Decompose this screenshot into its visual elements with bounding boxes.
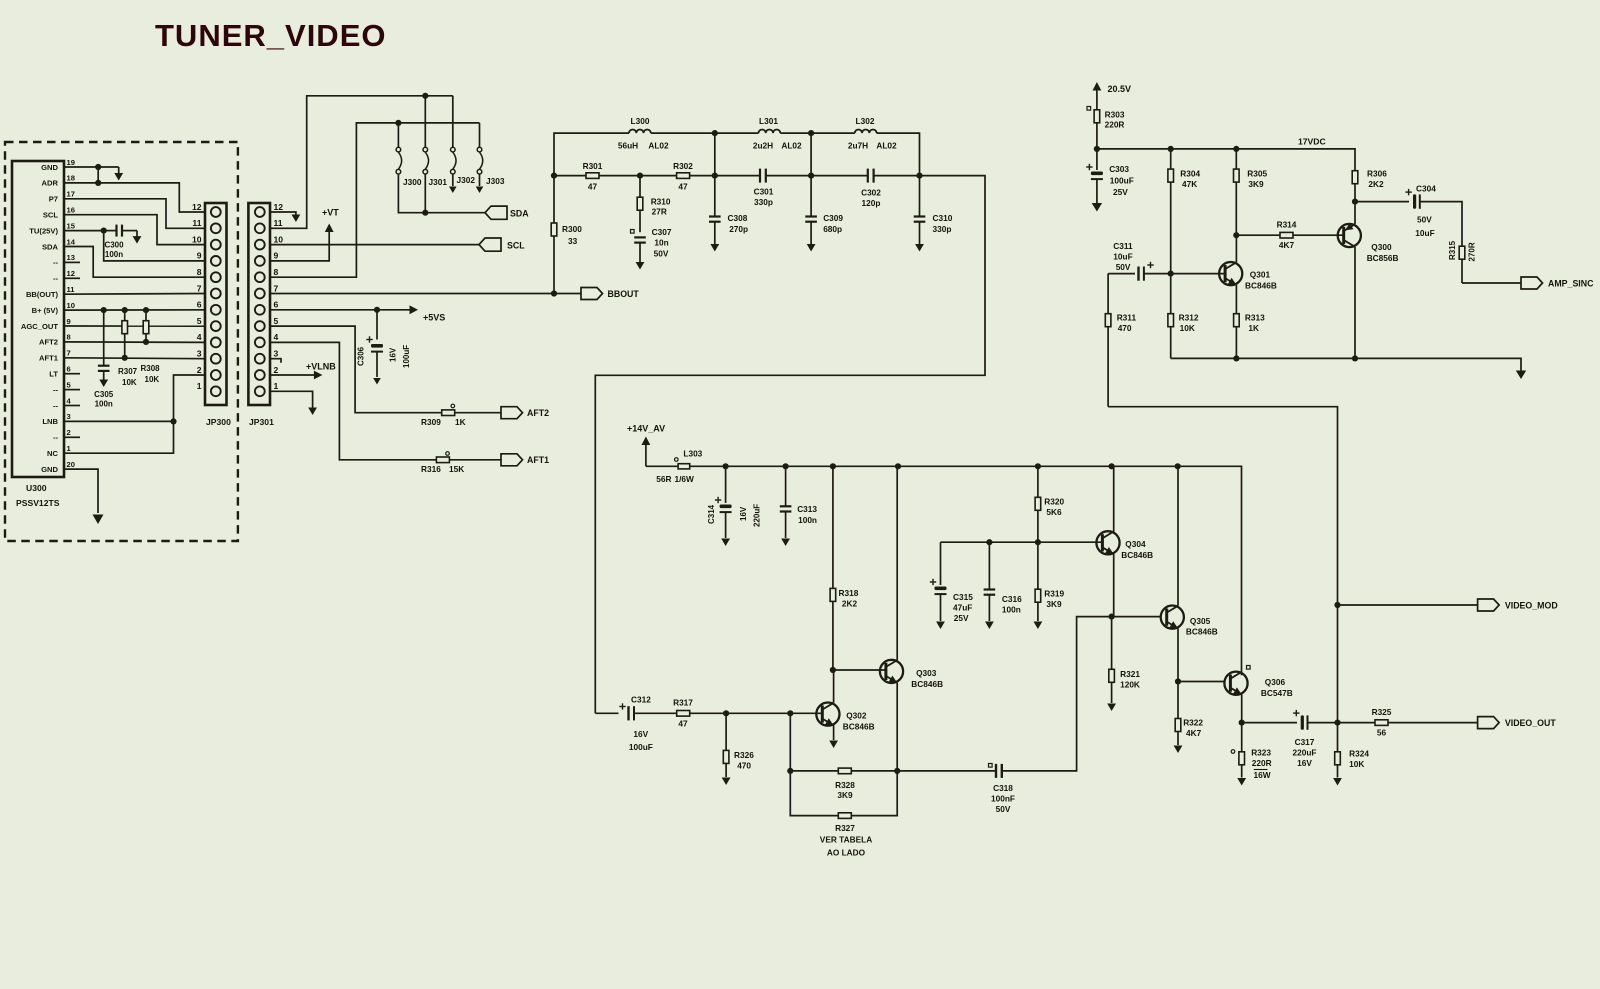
svg-text:270p: 270p xyxy=(729,224,748,234)
wire R317 to R326 node xyxy=(690,712,726,714)
wire R315 to AMP_SINC xyxy=(1462,282,1521,284)
wire emitter node to Q305 base xyxy=(1112,616,1161,618)
svg-text:15K: 15K xyxy=(449,464,464,474)
wire node to C304 xyxy=(1355,201,1409,203)
C301 label xyxy=(754,187,774,197)
wire JP301 pin6 +5VS xyxy=(270,309,410,311)
svg-text:ADR: ADR xyxy=(42,179,59,188)
svg-text:4K7: 4K7 xyxy=(1279,240,1295,250)
node rail C313 xyxy=(783,463,789,469)
C318 label xyxy=(993,783,1013,793)
wire R316 to AFT1 tag xyxy=(449,459,501,461)
svg-text:2: 2 xyxy=(67,428,71,437)
svg-text:10: 10 xyxy=(274,234,284,244)
svg-text:BC846B: BC846B xyxy=(1121,550,1153,560)
svg-text:10K: 10K xyxy=(1180,323,1195,333)
inductor L303 (choke) xyxy=(678,464,690,469)
capacitor C312 xyxy=(595,703,676,720)
svg-text:680p: 680p xyxy=(823,224,842,234)
svg-text:R323: R323 xyxy=(1251,748,1271,758)
R325 value xyxy=(1377,728,1387,738)
svg-text:5: 5 xyxy=(274,316,279,326)
svg-text:2K2: 2K2 xyxy=(842,599,858,609)
resistor R300 xyxy=(551,176,557,294)
capacitor C314 xyxy=(715,466,732,538)
resistor R328 xyxy=(838,768,851,774)
svg-text:17: 17 xyxy=(67,190,75,199)
ground at R323 xyxy=(1237,778,1246,786)
wire Q303 collector xyxy=(896,466,898,660)
svg-text:R303: R303 xyxy=(1105,110,1125,120)
svg-text:R302: R302 xyxy=(673,161,693,171)
svg-text:BC846B: BC846B xyxy=(1186,627,1218,637)
svg-text:VIDEO_OUT: VIDEO_OUT xyxy=(1505,718,1556,728)
wire JP301 pin4 to AFT1 xyxy=(270,342,436,459)
svg-text:R312: R312 xyxy=(1179,313,1199,323)
connector JP300 xyxy=(205,203,227,405)
svg-text:Q300: Q300 xyxy=(1371,242,1392,252)
R319 value xyxy=(1046,599,1062,609)
C306 value xyxy=(402,345,411,368)
svg-text:6: 6 xyxy=(274,300,279,310)
node +5VS xyxy=(374,307,380,313)
wire Q305 emitter xyxy=(1177,628,1179,681)
ground at C308 xyxy=(710,244,719,252)
svg-text:50V: 50V xyxy=(1116,262,1131,272)
svg-text:AMP_SINC: AMP_SINC xyxy=(1548,279,1594,289)
capacitor C315 xyxy=(930,542,947,621)
svg-text:Q304: Q304 xyxy=(1125,539,1146,549)
svg-text:2u7H: 2u7H xyxy=(848,141,868,151)
svg-text:100uF: 100uF xyxy=(629,742,653,752)
wire Q306 emitter to C317 xyxy=(1242,722,1297,724)
power arrow +5VS xyxy=(410,305,419,314)
wire U300 pin11 BBOUT to JP300 pin7 xyxy=(64,293,205,296)
svg-text:470: 470 xyxy=(1118,323,1132,333)
wire node2 to L302 xyxy=(811,132,855,134)
resistor R308 xyxy=(143,310,149,342)
wire R311 to video mod node xyxy=(1108,407,1337,605)
C304 value xyxy=(1415,228,1434,238)
capacitor C311 xyxy=(1108,262,1171,281)
node bus1 J301 xyxy=(422,93,428,99)
ground at C300 xyxy=(133,231,142,244)
R311 label xyxy=(1117,313,1137,323)
wire to R302 xyxy=(640,175,677,177)
node rail R318 xyxy=(830,463,836,469)
C309 label xyxy=(823,213,843,223)
R327 note2 xyxy=(827,848,866,858)
svg-text:C316: C316 xyxy=(1002,594,1022,604)
wire R327 loop xyxy=(790,771,838,816)
node top2 xyxy=(808,130,814,136)
node LNB-NC tie xyxy=(170,418,176,424)
R316 value xyxy=(449,464,464,474)
J303 label xyxy=(486,176,505,186)
C317 value xyxy=(1293,748,1317,758)
svg-text:120p: 120p xyxy=(862,198,881,208)
svg-text:R305: R305 xyxy=(1247,169,1267,179)
R320 label xyxy=(1044,497,1064,507)
svg-text:4: 4 xyxy=(197,332,202,342)
wire Q305 collector xyxy=(1177,466,1179,606)
+5VS text xyxy=(423,313,445,323)
C308 value xyxy=(729,224,748,234)
inductor L300 xyxy=(629,129,651,133)
C307 label xyxy=(652,227,672,237)
U300 label xyxy=(26,483,47,493)
R318 label xyxy=(839,588,859,598)
node Q304 emitter xyxy=(1109,614,1115,620)
svg-text:47uF: 47uF xyxy=(953,603,972,613)
svg-text:C315: C315 xyxy=(953,592,973,602)
svg-text:20: 20 xyxy=(67,460,75,469)
R300 value xyxy=(568,236,578,246)
wire C301 to node C309 xyxy=(766,175,811,177)
svg-text:3K9: 3K9 xyxy=(837,790,853,800)
svg-text:12: 12 xyxy=(67,269,75,278)
power arrow +VLNB xyxy=(314,371,323,380)
R317 value xyxy=(678,719,688,729)
JP301 label xyxy=(249,417,274,427)
ground at C313 xyxy=(781,539,790,547)
JP300 pin numbers xyxy=(192,202,202,391)
node C316 top xyxy=(986,539,992,545)
svg-text:220uF: 220uF xyxy=(753,504,762,527)
resistor R321 xyxy=(1109,617,1115,703)
Q304 part xyxy=(1121,550,1153,560)
L301 value xyxy=(753,141,773,151)
R311 value xyxy=(1118,323,1132,333)
svg-text:100n: 100n xyxy=(95,400,113,409)
capacitor C318 xyxy=(996,764,1002,778)
wire Q303 emitter xyxy=(896,683,898,771)
svg-text:5: 5 xyxy=(197,316,202,326)
resistor R307 xyxy=(122,310,128,358)
ground at R321 xyxy=(1107,704,1116,712)
svg-text:3: 3 xyxy=(67,412,71,421)
svg-text:10K: 10K xyxy=(122,378,137,387)
wire JP301 pin8 to jumper bus2 xyxy=(270,123,480,277)
resistor R327 xyxy=(838,813,851,819)
resistor R310 xyxy=(637,176,643,233)
svg-text:8: 8 xyxy=(67,333,71,342)
C316 value xyxy=(1002,605,1021,615)
node C304 xyxy=(1352,199,1358,205)
svg-text:10uF: 10uF xyxy=(1415,228,1434,238)
wire J303 to ground xyxy=(479,174,481,186)
svg-text:AO LADO: AO LADO xyxy=(827,848,866,858)
svg-text:10: 10 xyxy=(67,301,75,310)
svg-text:4: 4 xyxy=(274,332,279,342)
svg-text:JP301: JP301 xyxy=(249,417,274,427)
inductor L301 xyxy=(759,129,781,133)
svg-text:R322: R322 xyxy=(1183,718,1203,728)
C303 value xyxy=(1110,176,1134,186)
node R328 right xyxy=(894,768,900,774)
svg-text:47K: 47K xyxy=(1182,179,1197,189)
svg-text:C306: C306 xyxy=(357,346,366,366)
SCL text xyxy=(507,240,525,250)
R302 label xyxy=(673,161,693,171)
20.5V text xyxy=(1108,84,1132,94)
svg-text:100uF: 100uF xyxy=(402,345,411,368)
wire Q300 emitter xyxy=(1354,202,1356,225)
ground at R326 xyxy=(722,778,731,786)
svg-text:100n: 100n xyxy=(798,515,817,525)
svg-text:220uF: 220uF xyxy=(1293,748,1317,758)
R314 label xyxy=(1277,220,1297,230)
L303 value xyxy=(656,474,671,484)
resistor R313 xyxy=(1234,314,1240,359)
svg-text:10uF: 10uF xyxy=(1113,252,1132,262)
wire U300 pin8 AFT2 to JP300 pin4 xyxy=(64,341,205,344)
wire bus2 to J303 top xyxy=(479,123,481,147)
wire bus1 to J301 top xyxy=(424,96,426,148)
resistor R312 xyxy=(1168,274,1174,359)
Q305 part xyxy=(1186,627,1218,637)
svg-text:Q303: Q303 xyxy=(916,668,937,678)
C305 label xyxy=(94,390,114,399)
svg-text:--: -- xyxy=(53,258,59,267)
VIDEO_OUT text xyxy=(1505,718,1556,728)
svg-text:330p: 330p xyxy=(754,197,773,207)
resistor R318 xyxy=(830,466,836,670)
wire R309 to AFT2 tag xyxy=(455,412,501,414)
L302 type xyxy=(876,141,897,151)
R308 label xyxy=(141,364,161,373)
ground at C306 xyxy=(373,378,381,385)
R308 value xyxy=(145,375,160,384)
wire R305 node to R314 xyxy=(1236,234,1280,236)
svg-text:1K: 1K xyxy=(455,417,466,427)
node SDA xyxy=(422,210,428,216)
node AFT2 xyxy=(143,339,149,345)
svg-text:18: 18 xyxy=(67,174,75,183)
ground at J303 xyxy=(476,187,484,194)
C306 label xyxy=(357,346,366,366)
stub U300 pin12 xyxy=(64,277,80,279)
svg-text:10n: 10n xyxy=(654,238,668,248)
C301 value xyxy=(754,197,773,207)
connector JP301 xyxy=(248,203,270,405)
C308 label xyxy=(728,213,748,223)
ground at R322 xyxy=(1174,746,1183,754)
svg-text:R308: R308 xyxy=(141,364,161,373)
svg-text:J302: J302 xyxy=(457,175,476,185)
node TU(25V) xyxy=(101,228,107,234)
ground at JP301 pin12 xyxy=(292,215,301,223)
ground at JP301 pin1 xyxy=(308,408,317,416)
node B+ c xyxy=(143,307,149,313)
wire J302 to ground xyxy=(452,174,454,186)
svg-text:VIDEO_MOD: VIDEO_MOD xyxy=(1505,601,1558,611)
stub U300 pin5 xyxy=(64,389,80,391)
C313 value xyxy=(798,515,817,525)
svg-text:BC846B: BC846B xyxy=(1245,281,1277,291)
svg-text:C301: C301 xyxy=(754,187,774,197)
wire JP301 pin10 SCL xyxy=(270,244,479,246)
C305 value xyxy=(95,400,113,409)
svg-text:C309: C309 xyxy=(823,213,843,223)
svg-text:25V: 25V xyxy=(954,613,969,623)
marker at C318 xyxy=(989,764,993,768)
power arrow 20.5V xyxy=(1093,82,1102,110)
node C303 xyxy=(1094,146,1100,152)
svg-text:9: 9 xyxy=(67,317,71,326)
jumper J303 xyxy=(477,147,483,174)
C300 label xyxy=(104,241,124,250)
wire amp ground rail xyxy=(1171,358,1521,371)
svg-text:R315: R315 xyxy=(1448,240,1457,260)
node rail R313 xyxy=(1233,355,1239,361)
node R320 bottom xyxy=(1035,539,1041,545)
svg-text:10K: 10K xyxy=(1349,759,1364,769)
resistor R316 xyxy=(436,457,449,463)
capacitor C301 xyxy=(760,169,766,183)
resistor R326 xyxy=(723,713,729,777)
wire Q304 collector xyxy=(1113,466,1115,531)
node rail Q303 collector xyxy=(895,463,901,469)
node B+ a xyxy=(101,307,107,313)
wire U300 pin10 B+5V to JP300 pin6 xyxy=(64,309,205,311)
svg-text:11: 11 xyxy=(274,218,283,228)
node pin19-ADR tie xyxy=(95,164,101,170)
marker at R323 xyxy=(1231,750,1235,754)
svg-text:3: 3 xyxy=(274,349,279,359)
C314 value xyxy=(753,504,762,527)
C303 voltage xyxy=(1113,187,1128,197)
svg-text:L303: L303 xyxy=(683,449,702,459)
svg-text:C317: C317 xyxy=(1295,737,1315,747)
svg-text:J303: J303 xyxy=(486,176,505,186)
R312 label xyxy=(1179,313,1199,323)
svg-text:100n: 100n xyxy=(1002,605,1021,615)
capacitor C305 xyxy=(98,310,110,380)
svg-text:R326: R326 xyxy=(734,750,754,760)
Q304 label xyxy=(1125,539,1146,549)
Q300 label xyxy=(1371,242,1392,252)
L300 value xyxy=(618,141,638,151)
svg-text:47: 47 xyxy=(678,182,688,192)
Q300 part xyxy=(1367,253,1399,263)
R322 label xyxy=(1183,718,1203,728)
J302 label xyxy=(457,175,476,185)
port tag VIDEO_MOD xyxy=(1478,599,1500,611)
wire Q301 emitter to R313 xyxy=(1235,285,1237,314)
capacitor C307 xyxy=(634,237,646,262)
svg-text:R300: R300 xyxy=(562,224,582,234)
svg-text:C314: C314 xyxy=(707,504,716,524)
resistor R317 xyxy=(677,711,690,717)
R306 value xyxy=(1368,179,1384,189)
wire U300 pin16 SCL to JP300 pin10 xyxy=(64,215,205,245)
svg-text:9: 9 xyxy=(274,251,279,261)
R300 label xyxy=(562,224,582,234)
wire C317 to node xyxy=(1308,722,1338,724)
svg-text:220R: 220R xyxy=(1252,758,1272,768)
svg-text:C311: C311 xyxy=(1113,241,1133,251)
Q305 label xyxy=(1190,616,1211,626)
C300 value xyxy=(105,250,123,259)
inductor L302 xyxy=(855,129,877,133)
transistor Q301 xyxy=(1219,262,1242,285)
port tag AFT2 xyxy=(501,407,523,419)
svg-text:Q305: Q305 xyxy=(1190,616,1211,626)
svg-text:SCL: SCL xyxy=(507,240,525,250)
node VIDEO_MOD xyxy=(1334,602,1340,608)
svg-text:16V: 16V xyxy=(1297,758,1312,768)
svg-text:17VDC: 17VDC xyxy=(1298,137,1326,147)
svg-text:GND: GND xyxy=(41,163,58,172)
U300 pin names and numbers xyxy=(21,158,76,474)
svg-text:R309: R309 xyxy=(421,417,441,427)
node ADR xyxy=(95,180,101,186)
svg-text:2K2: 2K2 xyxy=(1368,179,1384,189)
wire 17VDC rail xyxy=(1097,149,1355,171)
svg-text:330p: 330p xyxy=(933,224,952,234)
J300 label xyxy=(403,177,422,187)
svg-text:SCL: SCL xyxy=(43,211,59,220)
L303 label xyxy=(683,449,702,459)
wire pin19 to pin18 tie xyxy=(97,167,99,183)
svg-text:220R: 220R xyxy=(1105,120,1125,130)
node Q302 base xyxy=(787,710,793,716)
wire JP301 pin2 +VLNB xyxy=(270,374,314,376)
port tag VIDEO_OUT xyxy=(1478,717,1500,729)
svg-text:L300: L300 xyxy=(631,116,650,126)
Q302 part xyxy=(843,722,875,732)
R316 label xyxy=(421,464,441,474)
C315 label xyxy=(953,592,973,602)
C312 voltage xyxy=(633,729,648,739)
svg-text:AL02: AL02 xyxy=(648,141,669,151)
resistor R309 xyxy=(442,410,455,416)
ground at amp rail xyxy=(1516,371,1526,380)
svg-text:R320: R320 xyxy=(1044,497,1064,507)
R325 label xyxy=(1372,707,1392,717)
node rail R320 xyxy=(1035,463,1041,469)
svg-text:C312: C312 xyxy=(631,695,651,705)
wire JP301 pin7 BBOUT xyxy=(270,293,581,295)
wire U300 pin18 ADR to JP300 pin12 xyxy=(64,183,205,212)
wire R327 right lead xyxy=(851,771,897,816)
resistor R303 xyxy=(1094,110,1100,149)
wire R328 left lead xyxy=(790,770,838,772)
BBOUT text xyxy=(608,289,640,299)
svg-text:--: -- xyxy=(53,274,59,283)
capacitor C316 xyxy=(984,542,996,621)
R320 value xyxy=(1046,507,1062,517)
C314 voltage xyxy=(739,506,748,521)
svg-text:R324: R324 xyxy=(1349,749,1369,759)
node AFT1 xyxy=(122,355,128,361)
capacitor C309 xyxy=(805,176,817,244)
jumper J302 xyxy=(451,147,457,174)
svg-text:16V: 16V xyxy=(739,506,748,521)
svg-text:C313: C313 xyxy=(797,504,817,514)
ground at C309 xyxy=(807,244,816,252)
R309 label xyxy=(421,417,441,427)
wire vertical top2 xyxy=(810,133,812,176)
ground at C310 xyxy=(915,244,924,252)
wire Q302 base down xyxy=(789,713,791,771)
AMP_SINC text xyxy=(1548,279,1594,289)
resistor R319 xyxy=(1035,542,1041,621)
capacitor C302 xyxy=(868,169,874,183)
C317 label xyxy=(1295,737,1315,747)
C309 value xyxy=(823,224,842,234)
